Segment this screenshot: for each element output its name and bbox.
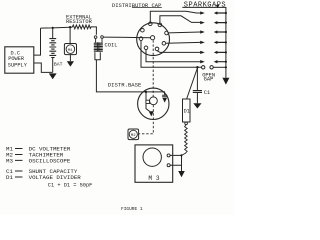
svg-text:GAP: GAP	[204, 77, 214, 83]
svg-text:BAT: BAT	[54, 61, 63, 67]
svg-text:SUPPLY: SUPPLY	[8, 63, 28, 69]
svg-text:M2: M2	[131, 134, 136, 138]
svg-text:M 3: M 3	[148, 175, 159, 182]
svg-text:RESISTOR: RESISTOR	[66, 19, 93, 25]
svg-text:D1: D1	[184, 109, 190, 115]
svg-text:C1: C1	[204, 90, 210, 96]
svg-text:DISTRIBUTOR CAP: DISTRIBUTOR CAP	[112, 2, 162, 9]
svg-text:OSCILLOSCOPE: OSCILLOSCOPE	[29, 158, 71, 165]
svg-text:D1: D1	[6, 174, 13, 181]
svg-text:DISTR.BASE: DISTR.BASE	[108, 82, 142, 89]
svg-text:POWER: POWER	[8, 56, 25, 62]
svg-text:FIGURE 1: FIGURE 1	[121, 206, 143, 212]
svg-text:M1: M1	[68, 49, 73, 53]
svg-text:M3: M3	[6, 158, 13, 165]
svg-text:SPARKGAPS: SPARKGAPS	[184, 2, 226, 10]
svg-text:VOLTAGE DIVIDER: VOLTAGE DIVIDER	[29, 174, 82, 181]
svg-text:COIL: COIL	[105, 43, 118, 49]
svg-text:C1 + D1 = 50pF: C1 + D1 = 50pF	[48, 183, 93, 189]
